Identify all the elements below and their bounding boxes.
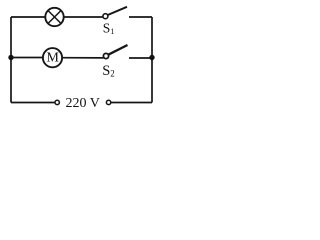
lamp L1: [45, 8, 63, 26]
terminal right of source: [106, 100, 110, 104]
svg-text:S2: S2: [102, 63, 115, 79]
wire S2 to right junction: [129, 57, 152, 59]
wire bottom-left to source: [11, 102, 55, 104]
wire left vertical: [10, 17, 12, 103]
motor M1: [43, 48, 62, 67]
wire lamp to switch S1: [64, 16, 103, 18]
svg-text:S1: S1: [103, 20, 115, 36]
svg-text:220 V: 220 V: [66, 96, 100, 111]
terminal left of source: [55, 100, 59, 104]
wire source to bottom-right: [111, 102, 152, 104]
switch S1: [103, 7, 127, 19]
wire motor to switch S2: [62, 57, 103, 59]
wire S1 to top-right corner: [129, 16, 152, 18]
wire left junction to motor: [11, 57, 43, 59]
switch S2: [103, 45, 127, 59]
node left junction: [8, 55, 13, 60]
node right junction: [149, 55, 154, 60]
svg-text:M: M: [46, 51, 59, 66]
wire top-left to lamp: [11, 16, 45, 18]
wire right vertical: [151, 17, 153, 103]
